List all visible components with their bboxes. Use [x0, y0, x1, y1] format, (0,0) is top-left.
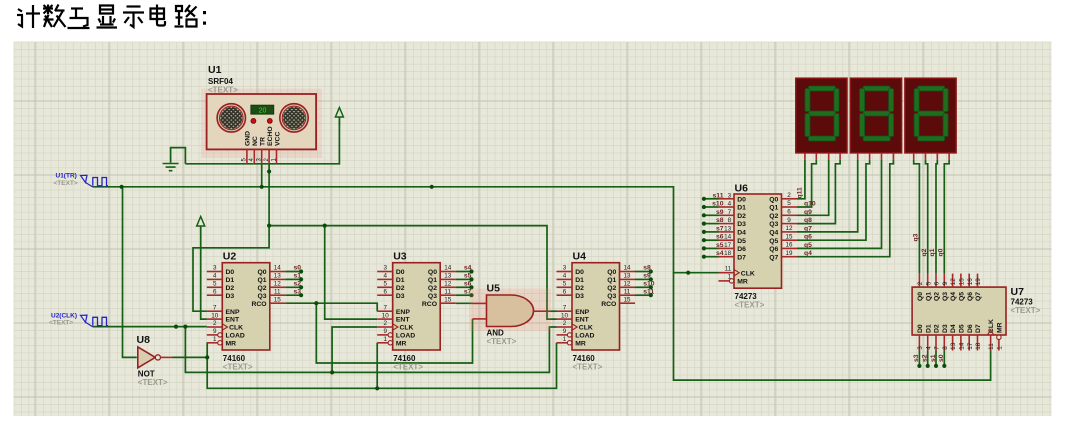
- svg-text:15: 15: [274, 296, 282, 303]
- U2 pin 3 D0 stub: [207, 271, 223, 273]
- U1 right indicator LED: [267, 119, 272, 124]
- U2 pin 11 Q3 stub: [270, 294, 286, 296]
- svg-text:U3: U3: [393, 251, 407, 263]
- wire net s5: [456, 278, 472, 280]
- IC U3 74160 counter body: [393, 263, 441, 350]
- wire net s3: [285, 294, 301, 296]
- generator U1(TR) probe triangle: [81, 175, 93, 187]
- svg-text:12: 12: [444, 281, 452, 288]
- svg-text:D2: D2: [396, 285, 405, 292]
- svg-text:D4: D4: [950, 324, 957, 333]
- U6 pin 11 CLK stub: [719, 272, 735, 274]
- svg-text:5: 5: [383, 281, 387, 288]
- U6 pin 2 Q0 stub: [782, 198, 798, 200]
- U2 pin 2 CLK stub: [207, 326, 223, 328]
- svg-text:Q2: Q2: [934, 292, 941, 301]
- svg-text:GND: GND: [245, 131, 252, 146]
- svg-text:1: 1: [383, 336, 387, 343]
- svg-text:U1: U1: [208, 64, 222, 76]
- display DS3 pin 3 stub: [936, 153, 938, 160]
- U7 pin 2 Q0 stub (top): [918, 274, 920, 288]
- U4 CLK edge triangle: [572, 324, 577, 330]
- svg-text:Q0: Q0: [769, 196, 778, 203]
- U6 MR active-low bubble: [729, 279, 733, 283]
- svg-text:9: 9: [383, 328, 387, 335]
- svg-text:RCO: RCO: [422, 301, 437, 308]
- wire U1 TR pin down to bus: [261, 164, 263, 187]
- node s11: [649, 293, 653, 297]
- junction CLK wire node A: [174, 325, 178, 329]
- svg-text:ECHO: ECHO: [267, 126, 274, 146]
- svg-text:MR: MR: [575, 340, 586, 347]
- node s5: [469, 277, 473, 281]
- U4 pin 3 D0 stub: [557, 271, 573, 273]
- U7 pin 15 Q5 stub (top): [960, 274, 962, 288]
- U2 pin 4 D1 stub: [207, 278, 223, 280]
- U7 pin 7 D2 stub (bottom): [935, 335, 937, 351]
- display DS3 pin 4 stub: [948, 153, 950, 160]
- U4 MR active-low bubble: [567, 341, 571, 345]
- svg-text:D2: D2: [737, 213, 746, 220]
- U7 pin 3 D0 stub (bottom): [918, 335, 920, 351]
- svg-text:D0: D0: [575, 269, 584, 276]
- node s10: [702, 205, 706, 209]
- svg-text:MR: MR: [997, 322, 1004, 333]
- junction TR pin on bus: [260, 185, 264, 189]
- svg-text:ENP: ENP: [226, 309, 240, 316]
- svg-text:2: 2: [213, 320, 217, 327]
- svg-text:6: 6: [563, 288, 567, 295]
- U6 pin 3 D0 stub: [719, 198, 735, 200]
- svg-text:s6: s6: [464, 281, 472, 288]
- svg-text:CLK: CLK: [741, 270, 755, 277]
- svg-text:s9: s9: [643, 273, 651, 280]
- svg-text:Q4: Q4: [769, 230, 778, 237]
- U6 pin 17 D6 stub: [719, 247, 735, 249]
- svg-text:10: 10: [382, 312, 390, 319]
- wire U1(TR) bus from generator to right side and down to U7 CLK: [92, 187, 990, 380]
- IC U7 74273 octal latch body (rotated): [912, 287, 1006, 335]
- svg-text:<TEXT>: <TEXT>: [487, 337, 517, 346]
- AND gate U5 highlight halo: [469, 289, 551, 332]
- svg-text:11: 11: [444, 288, 451, 295]
- U7 pin 6 Q2 stub (top): [935, 274, 937, 288]
- svg-text:s6: s6: [716, 234, 724, 241]
- wire net s2: [285, 286, 301, 288]
- svg-text:D4: D4: [737, 230, 746, 237]
- U3 pin 4 D1 stub: [377, 278, 393, 280]
- wire U6 Q2 to display DS1 pin 3: [797, 160, 829, 215]
- svg-text:Q0: Q0: [428, 269, 437, 276]
- svg-text:13: 13: [950, 342, 957, 350]
- node s11: [702, 197, 706, 201]
- display DS1 pin 3 stub: [828, 153, 830, 160]
- svg-text:7: 7: [563, 304, 567, 311]
- wire net s6: [456, 286, 472, 288]
- svg-text:7: 7: [383, 304, 387, 311]
- svg-text:U1(TR): U1(TR): [56, 173, 77, 180]
- U7 pin 16 Q6 stub (top): [968, 274, 970, 288]
- svg-text:D3: D3: [575, 293, 584, 300]
- U3 pin 14 Q0 stub: [440, 271, 456, 273]
- svg-text:q2: q2: [921, 248, 928, 256]
- U4 pin 12 Q2 stub: [620, 286, 636, 288]
- junction CLK wire / bottom bus branch: [183, 325, 187, 329]
- U3 pin 6 D3 stub: [377, 294, 393, 296]
- svg-text:s0: s0: [294, 265, 302, 272]
- wire U6 Q0 to display DS1 pin 1: [797, 160, 805, 199]
- display DS2 pin 2 stub: [869, 153, 871, 160]
- U7 pin 12 Q4 stub (top): [952, 274, 954, 288]
- U1 pin 4 stub: [253, 149, 255, 163]
- U6 net wire s9: [704, 214, 719, 216]
- svg-text:10: 10: [561, 312, 569, 319]
- svg-text:RCO: RCO: [251, 301, 266, 308]
- generator U1(TR) pulse waveform glyph: [93, 178, 108, 186]
- svg-text:18: 18: [724, 250, 732, 257]
- display DS3 pin 1 stub: [913, 153, 915, 160]
- svg-text:13: 13: [724, 225, 732, 232]
- IC U4 74160 counter body: [572, 263, 620, 350]
- U4 pin 9 LOAD stub: [557, 334, 568, 336]
- wire U2 RCO to U3 ENP: [285, 303, 377, 311]
- svg-text:Q3: Q3: [258, 293, 267, 300]
- svg-text:1: 1: [997, 346, 1004, 350]
- svg-text:<TEXT>: <TEXT>: [1011, 306, 1041, 315]
- svg-text:CLK: CLK: [579, 325, 593, 332]
- U6 net wire s5: [704, 247, 719, 249]
- U3 LOAD active-low bubble: [388, 333, 392, 337]
- U6 net wire s11: [704, 198, 719, 200]
- U7 MR active-low bubble: [997, 335, 1001, 339]
- svg-text:14: 14: [444, 265, 452, 272]
- U3 CLK edge triangle: [393, 324, 398, 330]
- svg-text:D2: D2: [934, 324, 941, 333]
- U3 pin 9 LOAD stub: [377, 334, 388, 336]
- svg-text:MR: MR: [226, 340, 237, 347]
- node s6: [469, 285, 473, 289]
- svg-text:U8: U8: [137, 334, 151, 346]
- 7-segment display DS1 body: [796, 78, 847, 153]
- node s2: [926, 364, 930, 368]
- svg-text:s11: s11: [713, 192, 724, 199]
- node s0: [299, 269, 303, 273]
- U1 left ultrasonic transducer: [195, 103, 267, 133]
- svg-text:CLK: CLK: [400, 325, 414, 332]
- wire U7 D3 to net s0: [943, 351, 945, 366]
- module U1 SRF04 body: [207, 94, 317, 149]
- wire net s1: [285, 278, 301, 280]
- svg-text:s5: s5: [716, 242, 724, 249]
- wire U2(CLK) generator to U2 CLK pin: [92, 326, 206, 328]
- svg-text:17: 17: [724, 242, 732, 249]
- svg-text:Q5: Q5: [959, 292, 966, 301]
- wire U6 Q7 to display DS2 pin 4: [797, 160, 893, 257]
- U7 pin 1 MR stub: [998, 340, 1000, 351]
- U2 pin 14 Q0 stub: [270, 271, 286, 273]
- U3 pin 5 D2 stub: [377, 286, 393, 288]
- svg-text:13: 13: [623, 273, 631, 280]
- junction on U6 CLK wire: [686, 271, 690, 275]
- wire net s9: [635, 278, 651, 280]
- svg-text:7: 7: [213, 304, 217, 311]
- junction NOT output / MR net: [205, 355, 209, 359]
- junction on TR bus (mid): [430, 185, 434, 189]
- U6 pin 9 Q3 stub: [782, 223, 798, 225]
- svg-text:D7: D7: [737, 254, 746, 261]
- U2 pin 6 D3 stub: [207, 294, 223, 296]
- svg-text:q11: q11: [797, 187, 804, 199]
- U2 pin 15 RCO stub: [270, 302, 286, 304]
- U1 pin 1 stub: [276, 149, 278, 163]
- svg-text:Q2: Q2: [607, 285, 616, 292]
- wire ECHO net to U2 ENP: [193, 226, 269, 312]
- svg-text:Q0: Q0: [607, 269, 616, 276]
- display DS3 pin 2 stub: [925, 153, 927, 160]
- generator U2(CLK) probe triangle: [81, 315, 93, 327]
- svg-text:s0: s0: [938, 354, 945, 362]
- U6 pin 12 Q4 stub: [782, 231, 798, 233]
- svg-text:15: 15: [444, 296, 452, 303]
- wire U6 Q5 to display DS2 pin 2: [797, 160, 870, 240]
- svg-text:19: 19: [975, 278, 982, 286]
- node s4: [469, 269, 473, 273]
- display DS1 pin 1 stub: [804, 153, 806, 160]
- svg-text:15: 15: [785, 233, 793, 240]
- svg-text:D2: D2: [226, 285, 235, 292]
- svg-text:Q6: Q6: [967, 292, 974, 301]
- svg-text:5: 5: [213, 281, 217, 288]
- svg-text:U2(CLK): U2(CLK): [51, 312, 77, 319]
- wire U7 D0 to net s3: [918, 351, 920, 366]
- node s8: [702, 222, 706, 226]
- svg-text:s7: s7: [716, 225, 724, 232]
- wire U6 Q6 to display DS2 pin 3: [797, 160, 882, 249]
- node s9: [649, 277, 653, 281]
- svg-text:14: 14: [274, 265, 282, 272]
- node s10: [649, 285, 653, 289]
- svg-text:9: 9: [787, 217, 791, 224]
- U1 right ultrasonic transducer: [258, 103, 330, 133]
- svg-text:Q7: Q7: [769, 254, 778, 261]
- U2 MR active-low bubble: [218, 341, 222, 345]
- U4 pin 2 CLK stub: [557, 326, 573, 328]
- svg-text:s5: s5: [464, 273, 472, 280]
- svg-text:TR: TR: [260, 137, 267, 146]
- svg-text:ENT: ENT: [226, 317, 240, 324]
- U5 output stub: [534, 310, 550, 312]
- wire display DS3 pin 4 to U7 Q3: [944, 160, 949, 274]
- display DS2 pin 1 stub: [857, 153, 859, 160]
- node s5: [702, 246, 706, 250]
- U7 pin 5 Q1 stub (top): [927, 274, 929, 288]
- svg-text:Q3: Q3: [428, 293, 437, 300]
- svg-text:2: 2: [787, 192, 791, 199]
- svg-text:D6: D6: [737, 246, 746, 253]
- U3 MR active-low bubble: [388, 341, 392, 345]
- svg-text:LOAD: LOAD: [226, 333, 245, 340]
- node s7: [469, 293, 473, 297]
- svg-text:11: 11: [988, 343, 995, 350]
- svg-text:14: 14: [623, 265, 631, 272]
- svg-text:s9: s9: [716, 209, 724, 216]
- svg-text:s10: s10: [643, 281, 655, 288]
- IC U2 74160 counter body: [222, 263, 269, 350]
- svg-text:6: 6: [213, 288, 217, 295]
- svg-text:6: 6: [934, 281, 941, 285]
- svg-text:s4: s4: [716, 250, 724, 257]
- svg-text:12: 12: [950, 278, 957, 286]
- wire net s7: [456, 294, 472, 296]
- wire U7 D2 to net s1: [935, 351, 937, 366]
- svg-text:D5: D5: [737, 238, 746, 245]
- U7 pin 18 D7 stub (bottom): [977, 335, 979, 351]
- U4 pin 14 Q0 stub: [620, 271, 636, 273]
- svg-text:17: 17: [967, 342, 974, 350]
- power symbol VCC above U1: [335, 108, 343, 126]
- U5 input A stub: [473, 302, 487, 304]
- generator U2(CLK) pulse waveform glyph: [93, 317, 108, 325]
- U6 pin 14 D5 stub: [719, 239, 735, 241]
- svg-text:Q3: Q3: [607, 293, 616, 300]
- U6 pin 15 Q5 stub: [782, 239, 798, 241]
- U6 CLK edge triangle: [734, 270, 739, 276]
- svg-text:s1: s1: [294, 273, 302, 280]
- U3 pin 1 MR stub: [377, 342, 388, 344]
- U3 pin 10 ENT stub: [377, 318, 393, 320]
- wire U6 Q4 to display DS2 pin 1: [797, 160, 858, 232]
- page title 计数与显示电路: (drawn strokes): [17, 5, 206, 29]
- svg-text:D1: D1: [396, 277, 405, 284]
- node s3: [917, 364, 921, 368]
- svg-text:Q1: Q1: [925, 292, 932, 301]
- U2 pin 10 ENT stub: [207, 318, 223, 320]
- wire U1 ECHO pin down and across (enable net): [269, 164, 556, 319]
- svg-text:Q5: Q5: [769, 238, 778, 245]
- svg-text:D0: D0: [226, 269, 235, 276]
- wire CLK net bottom bus to U3 CLK / U4 CLK: [185, 327, 556, 373]
- svg-text:14: 14: [959, 342, 966, 350]
- svg-text:s10: s10: [712, 201, 724, 208]
- svg-text:14: 14: [724, 234, 732, 241]
- U2 pin 12 Q2 stub: [270, 286, 286, 288]
- display DS2 pin 4 stub: [892, 153, 894, 160]
- wire U5 AND output to U4 ENP: [550, 310, 557, 312]
- svg-text:ENT: ENT: [575, 317, 589, 324]
- svg-text:<TEXT>: <TEXT>: [208, 86, 238, 95]
- svg-text:ENP: ENP: [396, 309, 410, 316]
- svg-text:q3: q3: [913, 233, 920, 241]
- AND gate U5 body: [487, 295, 534, 327]
- svg-text:RCO: RCO: [601, 301, 616, 308]
- wire display DS3 pin 3 to U7 Q2: [936, 160, 937, 274]
- wire U8 NOT output to U2 MR: [173, 343, 208, 358]
- svg-text:D1: D1: [925, 324, 932, 333]
- svg-text:<TEXT>: <TEXT>: [573, 363, 603, 372]
- svg-text:2: 2: [383, 320, 387, 327]
- U4 pin 10 ENT stub: [557, 318, 573, 320]
- U2 pin 9 LOAD stub: [207, 334, 218, 336]
- svg-text:8: 8: [942, 346, 949, 350]
- svg-text:7: 7: [728, 209, 732, 216]
- U6 net wire s4: [704, 256, 719, 258]
- svg-text:U6: U6: [735, 183, 749, 195]
- svg-text:11: 11: [624, 288, 631, 295]
- wire ground lead to U1 GND: [171, 148, 186, 164]
- svg-text:9: 9: [563, 328, 567, 335]
- svg-text:s4: s4: [464, 265, 472, 272]
- wire U7 D1 to net s2: [927, 351, 929, 366]
- U2 pin 13 Q1 stub: [270, 278, 286, 280]
- svg-text:15: 15: [959, 278, 966, 286]
- svg-text:Q3: Q3: [769, 221, 778, 228]
- wire branch TR bus down to U8 NOT input: [123, 187, 137, 358]
- svg-text:16: 16: [785, 242, 793, 249]
- node s0: [942, 364, 946, 368]
- U2 LOAD active-low bubble: [218, 333, 222, 337]
- 7-segment display DS2 body: [850, 78, 901, 153]
- svg-text:5: 5: [787, 200, 791, 207]
- svg-text:20: 20: [259, 108, 267, 115]
- U6 pin 1 MR stub: [719, 280, 730, 282]
- svg-text:Q1: Q1: [428, 277, 437, 284]
- svg-text:12: 12: [623, 281, 631, 288]
- U2 CLK edge triangle: [222, 324, 227, 330]
- display DS1 pin 4 stub: [839, 153, 841, 160]
- U7 pin 13 D4 stub (bottom): [952, 335, 954, 351]
- svg-text:s8: s8: [716, 217, 724, 224]
- wire U1 bottom rail (GND to VCC arrow): [185, 117, 339, 164]
- svg-text:D6: D6: [967, 324, 974, 333]
- svg-text:2: 2: [563, 320, 567, 327]
- svg-text:Q0: Q0: [258, 269, 267, 276]
- svg-text:D0: D0: [396, 269, 405, 276]
- wire MR bus branch up to U3 MR: [376, 343, 378, 389]
- junction TR bus / NOT input branch: [120, 185, 124, 189]
- U3 pin 13 Q1 stub: [440, 278, 456, 280]
- svg-text:Q2: Q2: [769, 213, 778, 220]
- svg-text:5: 5: [563, 281, 567, 288]
- display DS2 segments (digit 8): [860, 86, 894, 141]
- svg-text:3: 3: [728, 192, 732, 199]
- svg-text:13: 13: [444, 273, 452, 280]
- svg-text:8: 8: [728, 217, 732, 224]
- wire ECHO net branch to U3 ENT: [325, 226, 378, 320]
- wire display DS3 pin 1 to U7 Q0: [914, 160, 920, 274]
- U3 pin 12 Q2 stub: [440, 286, 456, 288]
- svg-text:VCC: VCC: [274, 132, 281, 146]
- U6 pin 5 Q1 stub: [782, 206, 798, 208]
- svg-text:9: 9: [213, 328, 217, 335]
- node s1: [299, 277, 303, 281]
- svg-text:3: 3: [563, 265, 567, 272]
- U1 left indicator LED: [251, 119, 256, 124]
- svg-text:D0: D0: [917, 324, 924, 333]
- svg-text:<TEXT>: <TEXT>: [735, 301, 765, 310]
- svg-text:D3: D3: [226, 293, 235, 300]
- svg-text:D3: D3: [737, 221, 746, 228]
- U4 LOAD active-low bubble: [567, 333, 571, 337]
- svg-text:D0: D0: [737, 196, 746, 203]
- U6 net wire s6: [704, 239, 719, 241]
- svg-text:Q1: Q1: [769, 205, 778, 212]
- svg-text:U5: U5: [487, 283, 501, 295]
- junction ECHO pin node: [267, 169, 271, 173]
- display DS3 segments (digit 8): [914, 86, 948, 141]
- U3 pin 2 CLK stub: [377, 326, 393, 328]
- svg-text:s2: s2: [294, 281, 302, 288]
- U6 pin 13 D4 stub: [719, 231, 735, 233]
